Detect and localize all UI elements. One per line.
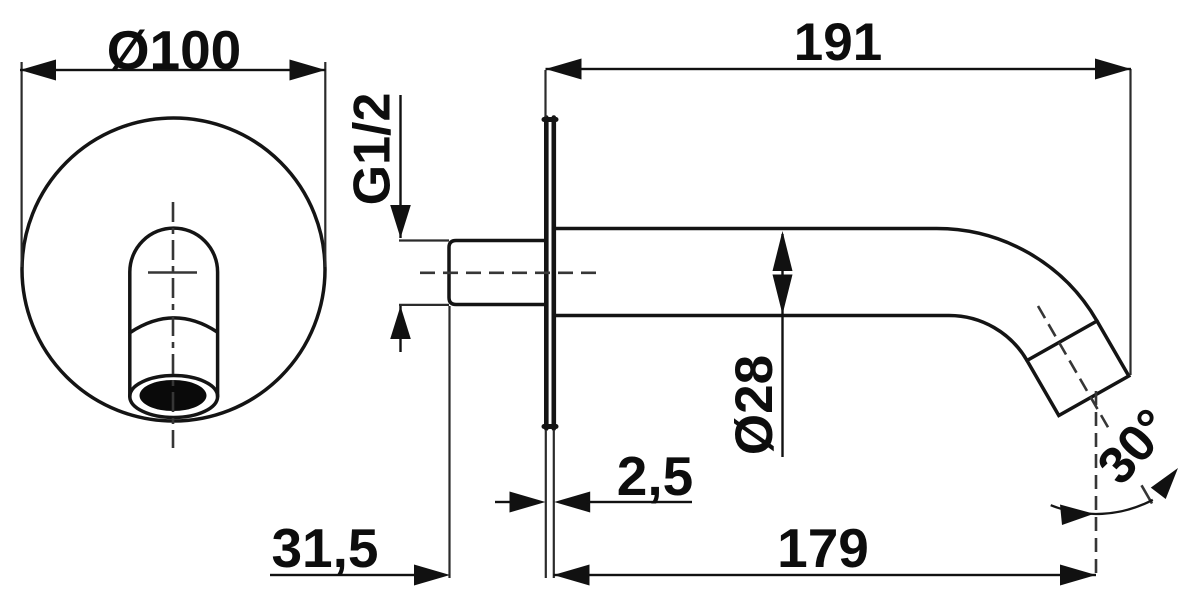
side view pipe centerline [420, 271, 601, 274]
flange circle (front view) [22, 118, 325, 421]
arrow G1/2 up [390, 306, 411, 339]
aerator joint line [1027, 321, 1097, 361]
dim 179 line [554, 574, 1097, 576]
svg-text:191: 191 [794, 13, 882, 72]
svg-text:Ø28: Ø28 [725, 355, 784, 455]
threaded pipe (side view) [449, 241, 544, 305]
ext line pipe top edge toward G1/2 [399, 239, 449, 241]
wall plate left face [544, 118, 549, 429]
wall plate top cap [544, 117, 556, 122]
ext line pipe left end down to 31,5 [448, 306, 450, 578]
ext line pipe bottom edge toward G1/2 [399, 304, 449, 306]
ext line spout tip for 191 [1129, 69, 1131, 375]
outlet rim ellipse [130, 376, 218, 418]
svg-text:179: 179 [777, 517, 869, 579]
arrow arc right [1151, 468, 1178, 499]
spout tip axis centerline [1038, 306, 1110, 431]
dim 191 line [546, 68, 1132, 70]
arrow Ø100 right [290, 60, 326, 81]
ext line plate right face down [553, 430, 555, 578]
dim 2,5 left segment [495, 501, 512, 503]
arrow 2,5 right-pointing [510, 492, 546, 513]
angle arc 30 deg [1051, 500, 1153, 514]
dim G1/2 tail lower [399, 306, 401, 352]
ext line circle right [324, 62, 326, 267]
front view horizontal center cross [148, 271, 197, 274]
spout body outline (side view) [556, 229, 1129, 416]
arrow Ø28 down [773, 275, 793, 315]
arrow 191 right [1095, 59, 1131, 80]
svg-text:Ø100: Ø100 [107, 19, 242, 81]
arrow 191 left [546, 59, 582, 80]
arrow Ø100 left [20, 60, 56, 81]
ext line plate top to 191 dim [544, 70, 546, 117]
outlet opening (black) [140, 380, 207, 411]
arrow 31,5 right-pointing [414, 565, 450, 586]
dim Ø100 line [20, 69, 326, 71]
arrow Ø28 up [773, 231, 793, 271]
arrow 179 right [1060, 565, 1096, 586]
ext line circle left [21, 62, 23, 267]
spout tube front view (capsule) [130, 228, 218, 396]
dim 31,5 line [270, 574, 418, 576]
dim Ø28 line [781, 234, 783, 457]
dim G1/2 line upper [399, 95, 401, 238]
front view vertical centerline [172, 202, 175, 448]
dim 2,5 right segment [586, 501, 692, 503]
vertical centerline below tip [1095, 391, 1098, 578]
svg-text:G1/2: G1/2 [344, 93, 402, 206]
svg-text:31,5: 31,5 [271, 517, 378, 579]
wall plate bottom cap [544, 424, 556, 429]
wall plate right face [551, 118, 556, 429]
svg-text:2,5: 2,5 [617, 445, 693, 507]
arrow arc left [1060, 505, 1094, 526]
arrow 2,5 left-pointing [554, 492, 590, 513]
arrow G1/2 down [390, 205, 411, 238]
tube joint dome arc [130, 318, 217, 333]
ext line plate left face down [545, 430, 547, 578]
arrow 179 left [554, 565, 590, 586]
